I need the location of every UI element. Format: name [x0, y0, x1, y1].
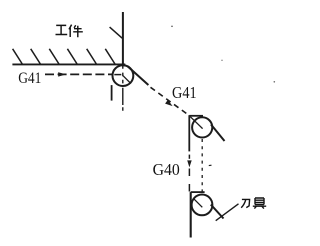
svg-text:G41: G41 [172, 83, 197, 102]
svg-text:G41: G41 [18, 70, 41, 87]
svg-text:G40: G40 [153, 160, 180, 179]
